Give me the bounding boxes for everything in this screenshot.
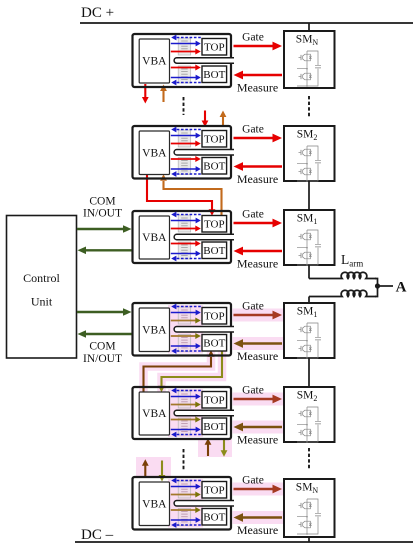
svg-text:Gate: Gate	[242, 32, 264, 44]
svg-text:Measure: Measure	[237, 433, 278, 447]
svg-text:TOP: TOP	[204, 42, 225, 54]
svg-text:VBA: VBA	[142, 408, 167, 420]
svg-text:IN/OUT: IN/OUT	[83, 208, 122, 220]
svg-text:BOT: BOT	[203, 69, 225, 81]
svg-text:BOT: BOT	[203, 161, 225, 173]
svg-text:BOT: BOT	[203, 421, 225, 433]
svg-text:DC +: DC +	[81, 5, 114, 21]
svg-text:TOP: TOP	[204, 134, 225, 146]
svg-text:VBA: VBA	[142, 498, 167, 510]
svg-text:TOP: TOP	[204, 219, 225, 231]
svg-text:Measure: Measure	[237, 257, 278, 271]
svg-text:COM: COM	[89, 196, 115, 208]
svg-text:VBA: VBA	[142, 147, 167, 159]
svg-text:IN/OUT: IN/OUT	[83, 353, 122, 365]
svg-text:TOP: TOP	[204, 311, 225, 323]
svg-text:Gate: Gate	[242, 301, 264, 313]
svg-text:Measure: Measure	[237, 81, 278, 95]
svg-text:Gate: Gate	[242, 209, 264, 221]
svg-text:Unit: Unit	[31, 295, 53, 309]
svg-text:VBA: VBA	[142, 232, 167, 244]
svg-text:BOT: BOT	[203, 512, 225, 524]
svg-text:VBA: VBA	[142, 56, 167, 68]
svg-text:Gate: Gate	[242, 475, 264, 487]
svg-text:Gate: Gate	[242, 385, 264, 397]
svg-text:A: A	[396, 280, 407, 296]
svg-text:Gate: Gate	[242, 124, 264, 136]
svg-text:VBA: VBA	[142, 324, 167, 336]
svg-text:COM: COM	[89, 341, 115, 353]
svg-text:Measure: Measure	[237, 523, 278, 537]
svg-text:TOP: TOP	[204, 395, 225, 407]
svg-text:BOT: BOT	[203, 338, 225, 350]
svg-text:BOT: BOT	[203, 245, 225, 257]
svg-text:Measure: Measure	[237, 349, 278, 363]
svg-text:TOP: TOP	[204, 485, 225, 497]
svg-text:Measure: Measure	[237, 172, 278, 186]
svg-text:Control: Control	[23, 271, 60, 285]
svg-text:DC –: DC –	[81, 527, 114, 543]
